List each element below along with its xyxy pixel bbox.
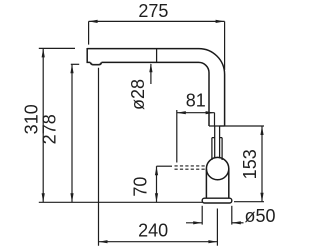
svg-text:81: 81 bbox=[186, 90, 206, 110]
aerator bump under spout tip bbox=[90, 62, 101, 64]
dimension 310 bottom arrow bbox=[42, 193, 45, 202]
dimension 81 line bbox=[177, 112, 215, 114]
tick connecting 70 dimension to hose level bbox=[157, 165, 173, 167]
faucet spout outer outline (top edge + outer bend + pipe right edge) bbox=[87, 49, 224, 126]
dimension 240 left arrow bbox=[99, 240, 108, 243]
dimension 310 line bbox=[42, 48, 44, 202]
faucet spout left edge + bottom edge + inner bend + pipe left edge bbox=[87, 48, 209, 126]
svg-text:70: 70 bbox=[130, 177, 150, 197]
svg-text:240: 240 bbox=[138, 221, 168, 241]
dimension 153 top arrow bbox=[260, 126, 263, 135]
dimension 81 right arrow bbox=[206, 111, 215, 114]
spray head neck outer edges with step bbox=[212, 138, 222, 160]
dimension 81 left extension line bbox=[176, 110, 178, 163]
dimension ø28 leader arrow bbox=[150, 64, 152, 84]
dimension 240 left extension line (from aerator) bbox=[98, 68, 100, 246]
dimension 275 left extension line bbox=[88, 21, 90, 44]
baseline (bottom reference line) bbox=[39, 201, 203, 203]
svg-text:275: 275 bbox=[138, 1, 168, 21]
dimension 240 right extension line (tap axis) bbox=[216, 209, 218, 246]
svg-text:310: 310 bbox=[21, 104, 41, 134]
dimension 153 bottom arrow bbox=[260, 193, 263, 202]
dimension 240 right arrow bbox=[208, 240, 217, 243]
dashed hose line lower bbox=[175, 168, 207, 170]
dimension 278 bottom arrow bbox=[70, 193, 73, 202]
spray head collar (inner tube lines) bbox=[215, 126, 220, 159]
dimension 153 line bbox=[261, 126, 263, 202]
dimension ø50 left extension tick bbox=[201, 206, 203, 225]
dashed hose line upper bbox=[175, 165, 207, 167]
svg-text:ø50: ø50 bbox=[244, 206, 275, 226]
dimension ø50 right extension tick bbox=[231, 206, 233, 225]
dimension 275 right arrow bbox=[216, 20, 225, 23]
dimension 153 bottom tick bbox=[234, 201, 264, 203]
pipe bottom shoulder segments bbox=[209, 125, 225, 127]
dimension 278 top arrow bbox=[70, 64, 73, 73]
dimension 275 line bbox=[89, 20, 225, 22]
svg-text:153: 153 bbox=[240, 149, 260, 179]
dimension 310 top tick bbox=[39, 47, 75, 49]
dimension 70 line bbox=[156, 166, 158, 202]
spout joint line bbox=[156, 49, 158, 62]
dimension 275 right extension line bbox=[224, 21, 226, 70]
svg-text:278: 278 bbox=[39, 114, 59, 144]
dimension 278 line bbox=[71, 64, 73, 202]
dimension 278 top tick bbox=[71, 63, 79, 65]
dimension 240 line bbox=[99, 241, 218, 243]
dimension 70 top arrow bbox=[155, 166, 158, 175]
dimension 70 bottom arrow bbox=[155, 193, 158, 202]
dimension 310 top arrow bbox=[42, 48, 45, 57]
base plate bbox=[202, 198, 232, 203]
svg-text:ø28: ø28 bbox=[128, 79, 148, 110]
dimension ø50 left leader with arrow bbox=[186, 222, 202, 224]
dimension 81 left arrow bbox=[177, 111, 186, 114]
dimension ø50 right leader with arrow bbox=[232, 222, 244, 224]
lower body cylinder sides bbox=[206, 169, 228, 199]
mixer handle body circle bbox=[206, 157, 228, 179]
dimension 153 top tick bbox=[220, 125, 264, 127]
dimension 275 left arrow bbox=[89, 20, 98, 23]
dimension 81 right stub to shoulder bbox=[214, 113, 216, 126]
